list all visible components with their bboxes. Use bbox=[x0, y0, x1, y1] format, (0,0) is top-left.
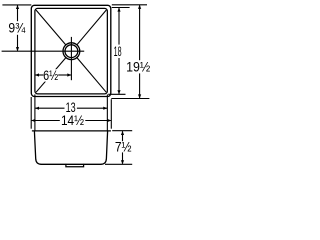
dimension line 7 1/2 bbox=[122, 131, 124, 141]
arrowhead 13 left bbox=[35, 107, 39, 110]
arrowhead 14 1/2 left bbox=[31, 119, 35, 122]
bowl crease diagonal bottom-left bbox=[36, 58, 66, 93]
arrowhead 18 down bbox=[117, 90, 120, 94]
dimension text 19 1/2 bbox=[126, 59, 150, 75]
drain outer circle bbox=[63, 43, 80, 60]
extension line top-right for 18 bbox=[112, 7, 130, 9]
drain inner circle bbox=[65, 45, 78, 58]
bowl crease diagonal bottom-right bbox=[77, 58, 106, 93]
drain centerline vertical bbox=[70, 37, 72, 80]
svg-text:19½: 19½ bbox=[126, 59, 150, 75]
dimension text 6 1/2 bbox=[43, 68, 58, 83]
extension line left outer for 14 1/2 bbox=[30, 97, 32, 129]
dimension line 6 1/2 bbox=[35, 74, 43, 76]
extension line bottom for 19 1/2 bbox=[111, 98, 149, 100]
extension line bottom-right for 18 bbox=[108, 93, 125, 95]
dimension text 13 bbox=[66, 101, 76, 115]
sink bowl inner edge (top view) bbox=[35, 8, 107, 94]
svg-text:14½: 14½ bbox=[61, 112, 84, 128]
arrowhead 19 1/2 up bbox=[138, 5, 141, 9]
svg-text:7½: 7½ bbox=[115, 139, 132, 155]
arrowhead 9 3/4 up bbox=[16, 5, 19, 9]
bowl crease diagonal top-right bbox=[77, 10, 106, 45]
arrowhead 6 1/2 right bbox=[67, 73, 71, 76]
text mask for 6 1/2 over diagonal bbox=[44, 69, 58, 81]
sink outer rim (top view) bbox=[31, 5, 111, 96]
svg-text:18: 18 bbox=[114, 45, 122, 60]
side view drain boss bbox=[66, 164, 84, 167]
dimension line 19 1/2 bbox=[139, 5, 141, 60]
projection/extension line left inner for 13 bbox=[34, 94, 36, 130]
extension line bottom for 7 1/2 bbox=[105, 163, 132, 165]
arrowhead 7 1/2 down bbox=[121, 160, 124, 164]
arrowhead 7 1/2 up bbox=[121, 131, 124, 135]
extension line top for 19 1/2 bbox=[112, 4, 147, 6]
arrowhead 14 1/2 right bbox=[107, 119, 111, 122]
arrowhead 9 3/4 down bbox=[16, 47, 19, 51]
svg-text:9¾: 9¾ bbox=[8, 20, 25, 36]
dimension text 14 1/2 bbox=[61, 112, 84, 128]
arrowhead 18 up bbox=[117, 8, 120, 12]
drain centerline horizontal bbox=[2, 50, 85, 52]
dimension text 18 bbox=[114, 45, 122, 60]
bowl crease diagonal top-left bbox=[36, 10, 66, 45]
dimension line 9 3/4 bbox=[17, 5, 19, 21]
side view rim line bbox=[32, 130, 111, 132]
arrowhead 13 right bbox=[103, 107, 107, 110]
side view body outline bbox=[34, 131, 107, 164]
dimension line 18 bbox=[118, 8, 120, 45]
extension line right outer for 14 1/2 bbox=[110, 99, 112, 129]
dimension line 13 bbox=[35, 107, 64, 109]
svg-text:6½: 6½ bbox=[43, 68, 58, 83]
extension line top for 7 1/2 bbox=[112, 130, 132, 132]
projection/extension line right inner for 13 bbox=[106, 94, 108, 130]
extension line top-left for 9 3/4 bbox=[2, 4, 31, 6]
arrowhead 19 1/2 down bbox=[138, 94, 141, 98]
dimension line 14 1/2 bbox=[32, 120, 60, 122]
dimension text 9 3/4 bbox=[8, 20, 25, 36]
arrowhead 6 1/2 left bbox=[35, 73, 39, 76]
dimension text 7 1/2 bbox=[115, 139, 132, 155]
